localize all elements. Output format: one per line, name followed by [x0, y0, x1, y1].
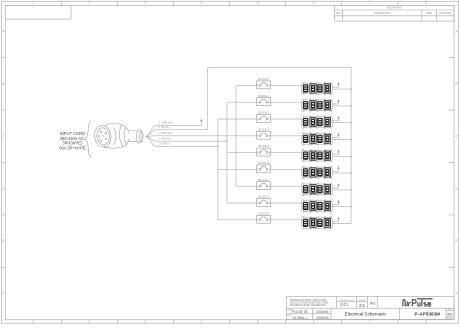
svg-text:5: 5 — [257, 1, 259, 5]
circuit breaker CB2 — [257, 98, 271, 106]
circuit breaker CB6 — [257, 165, 271, 173]
svg-text:2024/9/6: 2024/9/6 — [316, 310, 329, 314]
wire outlet strip 8 neutral to neutral bus — [332, 206, 351, 208]
svg-text:AND BRACKETED REFERENCE: AND BRACKETED REFERENCE — [290, 304, 327, 307]
svg-text:7: 7 — [369, 320, 371, 324]
wire L3 gray from plug — [146, 136, 218, 146]
wire CB8 output to outlet strip 8 — [270, 202, 301, 204]
svg-text:E: E — [456, 239, 458, 243]
title block — [286, 296, 454, 319]
svg-text:7: 7 — [369, 1, 371, 5]
wire PE green/yellow from plug — [146, 123, 202, 137]
svg-text:B: B — [2, 82, 4, 86]
svg-text:1: 1 — [32, 1, 34, 5]
wire outlet strip 5 neutral to neutral bus — [332, 155, 351, 157]
svg-text:60A 3P+N+PE: 60A 3P+N+PE — [59, 145, 86, 150]
svg-text:GLOBAL 1: GLOBAL 1 — [293, 316, 309, 320]
wire outlet strip 1 neutral to neutral bus — [332, 88, 351, 90]
chassis ground arrow at outlet strip 6 — [332, 166, 339, 171]
chassis ground arrow at input PE wire — [200, 119, 202, 126]
svg-text:SHEET 1: SHEET 1 — [447, 318, 454, 320]
junction dot L2 wire to bus — [226, 140, 228, 142]
wire L2 black from plug — [146, 136, 227, 141]
svg-text:PULSE SE: PULSE SE — [292, 310, 308, 314]
svg-text:8: 8 — [425, 1, 427, 5]
svg-text:4: 4 — [201, 320, 203, 324]
svg-text:2:1: 2:1 — [359, 303, 365, 308]
svg-text:F: F — [456, 292, 458, 296]
svg-text:4: 4 — [201, 1, 203, 5]
svg-text:CB (20A) 8: CB (20A) 8 — [258, 196, 270, 199]
drawn/approved rows — [287, 308, 329, 320]
wire CB1 output to outlet strip 1 — [270, 84, 301, 86]
outlet strip 9 (C13/C19 receptacle group) — [302, 217, 333, 230]
svg-text:3: 3 — [145, 1, 147, 5]
input cord label — [59, 131, 86, 150]
svg-text:2: 2 — [88, 1, 90, 5]
svg-text:3: 3 — [145, 320, 147, 324]
chassis ground arrow at outlet strip 2 — [332, 99, 339, 104]
svg-text:DESCRIPTION: DESCRIPTION — [374, 12, 391, 15]
junction dot L3 wire to bus — [217, 146, 219, 148]
svg-text:L2: (BLACK): L2: (BLACK) — [158, 137, 171, 140]
chassis ground arrow at outlet strip 9 — [332, 217, 339, 222]
svg-text:CB (20A) 2: CB (20A) 2 — [258, 95, 270, 98]
svg-text:REVISIONS: REVISIONS — [387, 6, 401, 10]
svg-text:REV: REV — [336, 12, 341, 15]
svg-text:G: (GRN/YEL): G: (GRN/YEL) — [158, 123, 173, 125]
outlet strip 8 (C13/C19 receptacle group) — [302, 200, 333, 213]
svg-text:Electrical Schematic: Electrical Schematic — [345, 311, 387, 316]
svg-text:PROJECTION: PROJECTION — [340, 300, 355, 302]
junction dot neutral tap 7 — [350, 189, 352, 191]
svg-text:6: 6 — [313, 1, 315, 5]
wire outlet strip 7 neutral to neutral bus — [332, 189, 351, 191]
svg-text:L1: (BROWN): L1: (BROWN) — [158, 133, 172, 135]
title block notes text — [290, 299, 330, 307]
phase bus L3 (feeds CB3 CB6 CB9) — [218, 119, 257, 220]
wire CB7 output to outlet strip 7 — [270, 185, 301, 187]
svg-text:B: B — [456, 82, 458, 86]
projection cell — [340, 300, 355, 306]
outlet strip 2 (C13/C19 receptacle group) — [302, 99, 333, 112]
outlet strip 7 (C13/C19 receptacle group) — [302, 183, 333, 196]
circuit breaker CB7 — [257, 182, 271, 190]
svg-text:CB (20A) 6: CB (20A) 6 — [258, 162, 270, 165]
svg-text:1: 1 — [32, 320, 34, 324]
circuit breaker CB9 — [257, 215, 271, 223]
svg-text:DATE: DATE — [426, 12, 433, 15]
circuit breaker CB5 — [257, 148, 271, 156]
company logo — [403, 299, 433, 307]
wire outlet strip 2 neutral to neutral bus — [332, 105, 351, 107]
outlet strip 6 (C13/C19 receptacle group) — [302, 166, 333, 179]
wire N blue from plug — [146, 127, 208, 137]
svg-text:N: (BLUE): N: (BLUE) — [158, 127, 169, 129]
outlet strip 1 (C13/C19 receptacle group) — [302, 82, 333, 95]
svg-text:8: 8 — [425, 320, 427, 324]
wire outlet strip 4 neutral to neutral bus — [332, 139, 351, 141]
callout brace — [85, 121, 91, 157]
junction dot neutral tap 8 — [350, 206, 352, 208]
junction dot neutral tap 6 — [350, 172, 352, 174]
phase bus L1 (feeds CB1 CB4 CB7) — [236, 85, 257, 186]
revisions table — [335, 5, 454, 21]
junction dot L1 wire to bus — [235, 135, 237, 137]
svg-text:CB (20A) 4: CB (20A) 4 — [258, 128, 270, 131]
input connector P1 (IEC 60309 3P+N+PE plug) — [93, 123, 143, 148]
wire CB4 output to outlet strip 4 — [270, 135, 301, 137]
svg-text:APPROVED: APPROVED — [439, 12, 453, 15]
circuit breaker CB3 — [257, 115, 271, 123]
junction dot neutral tap 5 — [350, 156, 352, 158]
outlet strip 4 (C13/C19 receptacle group) — [302, 133, 333, 146]
svg-text:CB (20A) 7: CB (20A) 7 — [258, 179, 270, 182]
circuit breaker CB4 — [257, 131, 271, 139]
svg-text:A01: A01 — [447, 312, 453, 316]
svg-text:A3: A3 — [370, 301, 375, 305]
junction dot neutral tap 4 — [350, 139, 352, 141]
revision cell — [447, 309, 454, 320]
wire CB6 output to outlet strip 6 — [270, 168, 301, 170]
svg-text:2024/9/6: 2024/9/6 — [316, 316, 329, 320]
phase bus L2 (feeds CB2 CB5 CB8) — [227, 102, 257, 203]
chassis ground arrow at outlet strip 5 — [332, 150, 339, 155]
outlet strip 3 (C13/C19 receptacle group) — [302, 116, 333, 129]
wire CB5 output to outlet strip 5 — [270, 152, 301, 154]
wire outlet strip 6 neutral to neutral bus — [332, 172, 351, 174]
chassis ground arrow at outlet strip 3 — [332, 116, 339, 121]
outlet strip 5 (C13/C19 receptacle group) — [302, 149, 333, 162]
svg-text:CB (20A) 5: CB (20A) 5 — [258, 145, 270, 148]
scale cell — [359, 299, 367, 308]
wire L1 brown from plug — [146, 133, 257, 137]
circuit breaker CB1 — [257, 81, 271, 89]
wire outlet strip 3 neutral to neutral bus — [332, 122, 351, 124]
wire CB2 output to outlet strip 2 — [270, 101, 301, 103]
svg-text:2: 2 — [88, 320, 90, 324]
svg-text:SCALE: SCALE — [359, 299, 367, 302]
chassis ground arrow at outlet strip 8 — [332, 200, 339, 205]
junction dot neutral tap 1 — [350, 88, 352, 90]
chassis ground arrow at outlet strip 7 — [332, 183, 339, 188]
circuit breaker CB8 — [257, 199, 271, 207]
svg-text:5: 5 — [257, 320, 259, 324]
svg-text:6: 6 — [313, 320, 315, 324]
junction dot neutral tap 3 — [350, 122, 352, 124]
svg-text:L3: (GRAY): L3: (GRAY) — [158, 142, 170, 145]
svg-text:CB (20A) 1: CB (20A) 1 — [258, 78, 270, 81]
junction dot neutral tap 2 — [350, 105, 352, 107]
svg-text:CB (20A) 3: CB (20A) 3 — [258, 112, 270, 115]
svg-text:CB (20A) 9: CB (20A) 9 — [258, 212, 270, 215]
svg-text:E: E — [2, 239, 4, 243]
chassis ground arrow at outlet strip 1 — [332, 82, 339, 87]
wire outlet strip 9 neutral to neutral bus — [332, 223, 351, 225]
svg-text:P-AP5363M: P-AP5363M — [415, 312, 441, 317]
wire CB9 output to outlet strip 9 — [270, 219, 301, 221]
neutral bus: riser, top run and right-side drop — [208, 67, 351, 223]
wire CB3 output to outlet strip 3 — [270, 118, 301, 120]
svg-text:F: F — [2, 292, 4, 296]
top-left reference box — [5, 5, 71, 19]
chassis ground arrow at outlet strip 4 — [332, 133, 339, 138]
